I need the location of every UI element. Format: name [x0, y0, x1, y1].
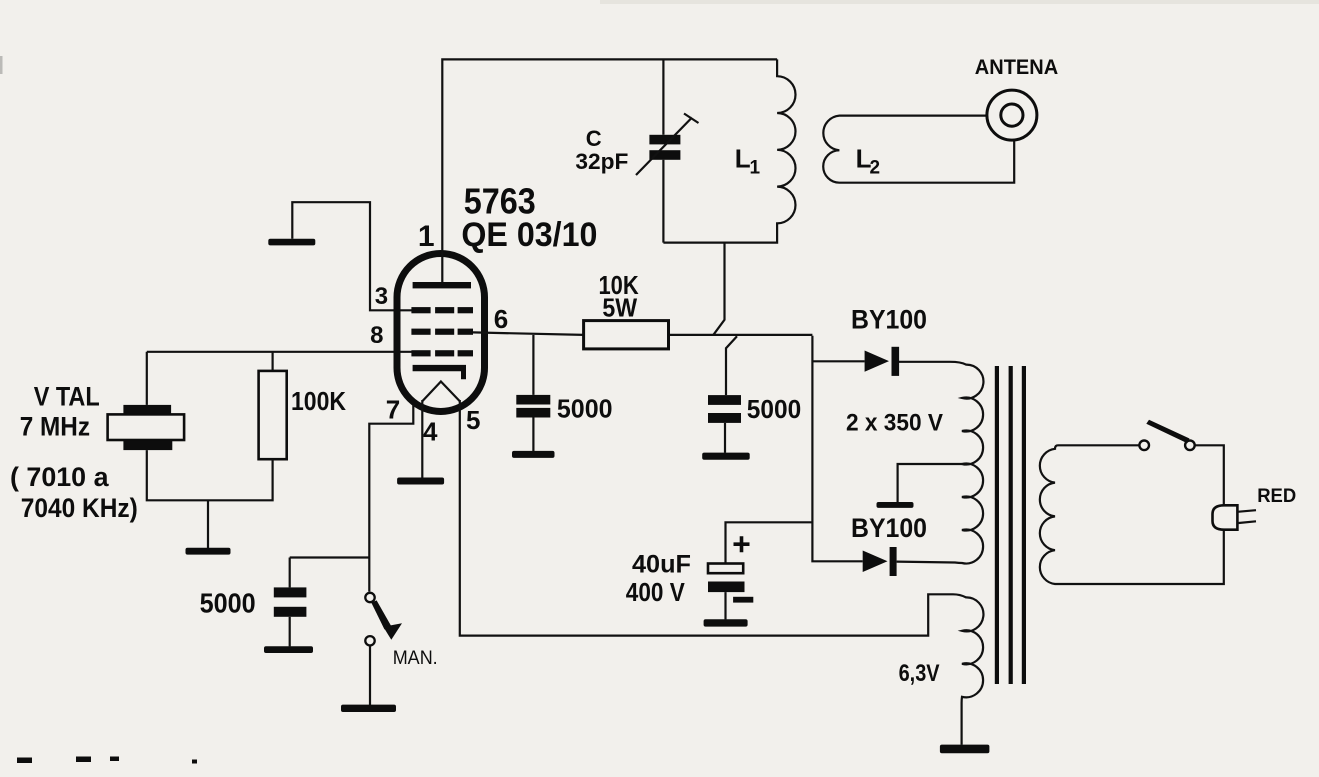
svg-text:MAN.: MAN.	[393, 648, 438, 669]
wire 40uF feed from B+ rail	[726, 522, 813, 563]
capacitor C3 5000 (cathode key bypass)	[274, 587, 307, 616]
wire crystal/100K bottom net	[147, 450, 273, 548]
inductor L2 antenna link	[823, 116, 1014, 183]
ground (C1)	[512, 451, 555, 458]
wire cathode/heater bottom rail (pin 5 to 6.3V winding)	[460, 400, 951, 636]
wire pin-8 rail (crystal to tube)	[147, 351, 412, 353]
wire pin-1 / top rail	[442, 59, 777, 285]
wire 100K top lead	[272, 352, 274, 371]
switch S1 MAN key	[365, 593, 402, 646]
svg-text:5: 5	[466, 405, 480, 435]
svg-text:7 MHz: 7 MHz	[20, 412, 90, 442]
svg-text:7: 7	[386, 394, 400, 424]
resistor R1 100K	[259, 371, 287, 459]
wire crystal top lead	[146, 352, 148, 405]
caption remnants bottom-left	[17, 757, 197, 764]
capacitor C2 5000	[708, 395, 741, 423]
crystal X1 V TAL	[108, 405, 185, 450]
ground (grid leak, top-left)	[268, 239, 315, 246]
svg-text:100K: 100K	[291, 386, 346, 416]
wire C 32pF stems	[662, 59, 664, 242]
ground (C4)	[704, 619, 748, 626]
wire pin-6 / B+ line	[473, 332, 812, 335]
svg-text:BY100: BY100	[851, 304, 927, 334]
wire T1 center tap	[898, 464, 962, 502]
tube grid row 3 (pin 8)	[411, 350, 473, 356]
wire heater left leg (pin 4)	[421, 400, 423, 478]
transformer T1 HV secondary winding	[897, 362, 984, 564]
tube cathode	[413, 365, 466, 379]
svg-text:2 x 350 V: 2 x 350 V	[846, 409, 943, 436]
wire C4 bottom stem	[724, 592, 726, 619]
antenna connector	[987, 90, 1037, 140]
svg-text:1: 1	[418, 220, 435, 253]
svg-text:2: 2	[870, 158, 881, 179]
svg-text:40uF: 40uF	[632, 551, 691, 579]
wire S1 to ground	[369, 646, 371, 705]
switch S2 mains	[1139, 420, 1194, 450]
transformer T1 6.3V winding	[951, 594, 983, 745]
ground (C2)	[702, 453, 750, 460]
mains plug (RED)	[1213, 505, 1257, 529]
svg-text:RED: RED	[1257, 485, 1296, 507]
svg-text:5000: 5000	[200, 588, 256, 619]
wire cap C2 bottom stem	[724, 423, 726, 453]
resistor R2 10K 5W	[584, 321, 669, 349]
ground (center tap)	[877, 502, 914, 508]
tube grid row 2 (pin 6)	[411, 329, 473, 335]
ground (pin 4)	[397, 478, 444, 485]
capacitor C 32pF trimmer	[636, 114, 699, 176]
tube grid row 1 (pin 3)	[411, 307, 473, 313]
tube anode (plate)	[413, 282, 471, 288]
inductor L1 tank coil	[663, 59, 795, 242]
svg-text:1: 1	[750, 158, 761, 179]
svg-text:8: 8	[370, 322, 383, 349]
wire pin-7 hook to keying net	[290, 405, 414, 592]
svg-text:6,3V: 6,3V	[899, 660, 940, 687]
ground (C3)	[264, 646, 313, 653]
svg-text:ANTENA: ANTENA	[975, 56, 1058, 79]
wire pin-3 net from ground stub to grid 1	[292, 202, 411, 310]
svg-text:7040 KHz): 7040 KHz)	[21, 493, 138, 523]
svg-text:( 7010 a: ( 7010 a	[10, 462, 109, 492]
vacuum tube V1 5763 envelope	[397, 254, 485, 412]
ground (crystal net)	[186, 548, 231, 555]
capacitor C4 40uF 400V electrolytic	[708, 536, 753, 602]
wire cap C3 top stem	[289, 558, 291, 588]
svg-text:V TAL: V TAL	[34, 382, 100, 412]
svg-text:400 V: 400 V	[626, 577, 686, 607]
diode D1 BY100 (upper)	[865, 347, 900, 376]
capacitor C1 5000	[516, 395, 550, 418]
ground (6.3V winding)	[940, 745, 990, 754]
ground (S1)	[341, 705, 396, 712]
wire cap C3 bottom stem	[289, 617, 291, 647]
wire B+ rail down to rectifier	[812, 336, 864, 562]
transformer T1 core	[995, 366, 1026, 684]
svg-text:L: L	[735, 144, 751, 174]
svg-text:5000: 5000	[557, 393, 613, 423]
svg-text:6: 6	[494, 304, 508, 334]
wire L1 tap jog to B+ line	[714, 243, 738, 396]
svg-text:C: C	[586, 126, 602, 151]
wire cap C1 stems	[532, 335, 534, 451]
svg-text:BY100: BY100	[851, 513, 927, 543]
diode D2 BY100 (lower)	[863, 547, 897, 576]
svg-text:5000: 5000	[747, 394, 801, 424]
svg-text:5W: 5W	[602, 293, 637, 323]
svg-text:32pF: 32pF	[575, 149, 628, 174]
svg-text:3: 3	[375, 283, 388, 310]
svg-text:4: 4	[423, 417, 438, 447]
tube heater filament	[422, 382, 460, 402]
svg-text:QE 03/10: QE 03/10	[461, 216, 597, 254]
transformer T1 primary winding	[1040, 445, 1224, 584]
